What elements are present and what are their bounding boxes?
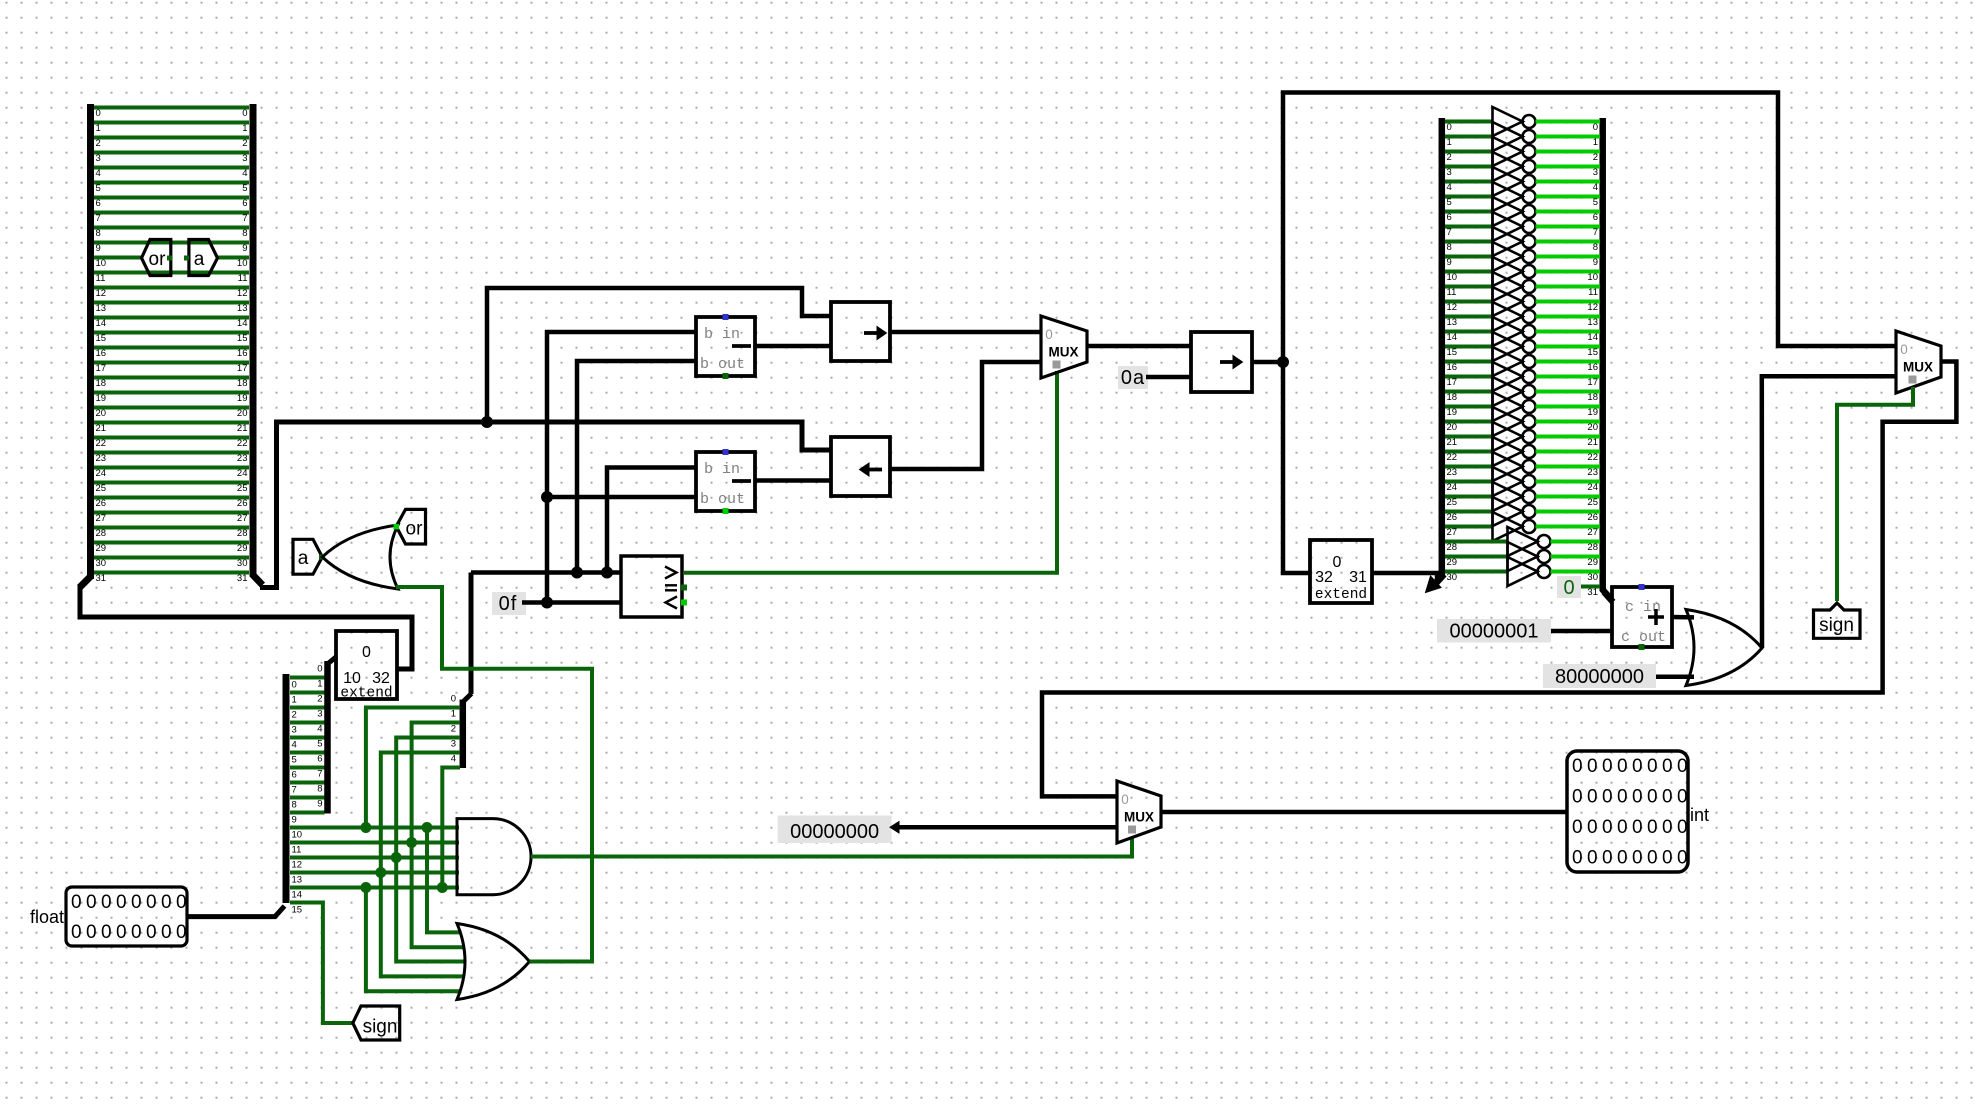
wire float bit 3 to SP4 [290,721,325,725]
svg-text:14: 14 [1447,332,1458,343]
svg-text:20: 20 [1447,422,1458,433]
inverter N2 [1493,137,1523,166]
svg-text:b out: b out [700,356,745,373]
wire SP5 leg0 to bit10 row [366,708,460,828]
svg-text:2: 2 [1447,152,1452,163]
splitter SP3 main 16-bit spine [283,674,290,903]
wire vertical 0f net to b-in and b-out [547,332,696,603]
svg-text:30: 30 [1447,572,1458,583]
junction on 0f wire [541,597,553,609]
wire SP1-SP2 bit 9 [94,241,249,245]
wire SP1-SP2 bit 25 [94,481,249,485]
svg-text:3: 3 [1593,167,1598,178]
label 00000001 constant [1437,619,1551,643]
svg-text:17: 17 [1587,377,1598,388]
wire SP1-SP2 bit 17 [94,361,249,365]
svg-text:20: 20 [1587,422,1598,433]
svg-text:2: 2 [292,710,297,721]
svg-text:15: 15 [237,333,248,344]
wire exponent bit 10 row [290,826,459,830]
wire SP1-SP2 bit 12 [94,286,249,290]
wire float bit 5 to SP4 [290,751,325,755]
svg-text:25: 25 [1587,497,1598,508]
svg-text:3: 3 [96,153,101,164]
svg-text:27: 27 [96,513,107,524]
svg-text:6: 6 [292,770,297,781]
svg-text:or: or [149,249,167,270]
junction b-out branch [541,491,553,503]
svg-text:22: 22 [96,438,107,449]
wire SP1-SP2 bit 16 [94,346,249,350]
wire SP6 bit 10 to inverter [1445,270,1493,274]
tunnel 'or' mid (points left) [396,509,425,544]
splitter SP2 right spine (32-bit fan-in) [250,104,257,576]
wire SP1-SP2 bit 22 [94,436,249,440]
wire inverter N29 out bit 29 [1551,555,1601,559]
wire SP7 bus to adder input a [1604,592,1613,602]
svg-text:5: 5 [1593,197,1598,208]
svg-text:6: 6 [96,198,101,209]
wire inverter N5 out bit 5 [1536,195,1601,199]
svg-text:3: 3 [242,153,247,164]
svg-text:b in: b in [704,461,740,478]
svg-text:1: 1 [96,123,101,134]
wire SP1-SP2 bit 19 [94,391,249,395]
wire float bit 1 to SP4 [290,691,325,695]
svg-text:0 0 0 0 0 0 0 0: 0 0 0 0 0 0 0 0 [1572,787,1687,808]
wire long loop to MUX M3 input 0 [1283,93,1896,363]
wire SP2 bus up to shifter network [260,422,831,588]
wire inverter N15 out bit 15 [1536,345,1601,349]
wire 0f to comparator input b [522,600,621,605]
wire SP1-SP2 bit 10 [94,256,143,260]
svg-text:14: 14 [96,318,107,329]
wire float bit 6 to SP4 [290,766,325,770]
wire SP1-SP2 bit 7 [94,211,249,215]
svg-text:28: 28 [96,528,107,539]
svg-text:29: 29 [237,543,248,554]
svg-text:7: 7 [242,213,247,224]
svg-text:5: 5 [292,755,297,766]
tunnel 'or' on bit 10 (points left) [142,240,171,276]
svg-text:int: int [1690,805,1709,825]
svg-text:11: 11 [96,273,106,284]
svg-text:0: 0 [1333,554,1342,571]
mux M1 [1041,316,1087,378]
wire SP1-SP2 bit 11 [94,271,249,275]
wire SP5 leg4 to bit14 row [442,768,460,888]
wire 00000001 to adder input b [1551,629,1612,634]
svg-text:0 0 0 0 0 0 0 0: 0 0 0 0 0 0 0 0 [1572,817,1687,838]
wire SP1-SP2 bit 2 [94,136,249,140]
svg-text:0: 0 [1593,122,1598,133]
svg-text:24: 24 [1587,482,1598,493]
wire branch to lower b-out [547,495,696,500]
svg-text:3: 3 [317,709,322,720]
register U2 'b in / b out' lower [696,452,755,511]
svg-text:18: 18 [237,378,248,389]
svg-text:9: 9 [242,243,247,254]
svg-text:9: 9 [1593,257,1598,268]
wire SP1-SP2 bit 5 [94,181,249,185]
wire G4 out up to MUX M3 input 1 [1762,376,1896,648]
or gate G3 a = or | nonzero (points left) [322,525,398,589]
svg-text:5: 5 [242,183,247,194]
svg-text:27: 27 [1587,527,1598,538]
subcircuit SH3 right-shifter box [1191,332,1252,392]
wire inverter N6 out bit 6 [1536,210,1601,214]
wire SP1-SP2 bit 18 [94,376,249,380]
wire inverter N24 out bit 24 [1536,480,1601,484]
svg-text:0: 0 [292,680,297,691]
svg-text:10: 10 [96,258,107,269]
svg-text:25: 25 [96,483,107,494]
svg-text:0f: 0f [499,593,518,615]
svg-text:6: 6 [317,754,322,765]
wire AND G1 out to MUX M2 select [531,837,1132,857]
svg-text:11: 11 [292,845,302,856]
svg-text:4: 4 [242,168,247,179]
svg-text:5: 5 [96,183,101,194]
wire SP6 bit 24 to inverter [1445,480,1493,484]
wire SP6 bit 12 to inverter [1445,300,1493,304]
svg-text:9: 9 [96,243,101,254]
svg-text:14: 14 [1587,332,1598,343]
inverter N23 [1493,452,1523,481]
wire SP6 bit 5 to inverter [1445,195,1493,199]
inverter N18 [1493,377,1523,406]
svg-text:0: 0 [1121,792,1129,807]
svg-text:30: 30 [96,558,107,569]
inverter N11 [1493,272,1523,301]
svg-text:13: 13 [1447,317,1458,328]
svg-text:22: 22 [1587,452,1598,463]
svg-text:10: 10 [292,830,303,841]
svg-text:15: 15 [1587,347,1598,358]
svg-text:14: 14 [292,890,303,901]
wire SP6 bit 21 to inverter [1445,435,1493,439]
svg-text:sign: sign [363,1017,398,1038]
svg-text:9: 9 [317,799,322,810]
svg-text:0: 0 [1900,342,1908,357]
svg-text:9: 9 [292,815,297,826]
svg-text:4: 4 [451,754,456,765]
svg-text:16: 16 [1447,362,1458,373]
svg-text:sign: sign [1819,615,1854,636]
splitter SP6 origin arrow [1434,574,1444,585]
svg-text:a: a [298,548,309,569]
svg-text:1: 1 [242,123,247,134]
svg-text:16: 16 [1587,362,1598,373]
inverter N8 [1493,227,1523,256]
wire exponent bit 13 row [290,871,459,875]
inverter N28 [1508,527,1538,556]
svg-text:00000000: 00000000 [790,821,879,843]
wire inverter N1 out bit 1 [1536,135,1601,139]
svg-text:2: 2 [242,138,247,149]
inverter N10 [1493,257,1523,286]
svg-text:8: 8 [292,800,297,811]
wire float bit 0 to SP4 [290,676,325,680]
wire inverter N8 out bit 8 [1536,240,1601,244]
inverter N22 [1493,437,1523,466]
svg-text:0 0 0 0 0 0 0 0: 0 0 0 0 0 0 0 0 [71,892,186,913]
wire SH3 out to splitter bus and MUX M3 [1252,360,1283,365]
inverter N24 [1493,467,1523,496]
inverter N27 [1493,512,1523,541]
wire SP1-SP2 bit 14 [94,316,249,320]
inverter N15 [1493,332,1523,361]
svg-text:23: 23 [1447,467,1458,478]
svg-text:1: 1 [317,679,322,690]
svg-text:21: 21 [96,423,107,434]
svg-text:10: 10 [1587,272,1598,283]
svg-text:0 0 0 0 0 0 0 0: 0 0 0 0 0 0 0 0 [71,922,186,943]
wire SP1-SP2 bit 21 [94,421,249,425]
inverter N1 [1493,122,1523,151]
wire SP1-SP2 bit 28 [94,526,249,530]
svg-text:24: 24 [1447,482,1458,493]
svg-text:7: 7 [292,785,297,796]
wire exponent bit 12 row [290,856,459,860]
svg-text:20: 20 [96,408,107,419]
svg-text:5: 5 [1447,197,1452,208]
svg-text:6: 6 [1593,212,1598,223]
svg-text:25: 25 [1447,497,1458,508]
svg-text:2: 2 [1593,152,1598,163]
and gate G1 (exponent all ones) [457,819,531,895]
svg-text:16: 16 [96,348,107,359]
inverter N21 [1493,422,1523,451]
wire 00000000 to MUX M2 input 1 [898,825,1117,830]
svg-text:19: 19 [1447,407,1458,418]
subcircuit SH2 left-shifter box [831,437,890,496]
wire exponent bit 14 row [290,886,459,890]
svg-text:32: 32 [372,670,390,687]
svg-text:0: 0 [317,664,322,675]
svg-text:12: 12 [237,288,248,299]
wire SP6 bit 28 to inverter [1445,540,1508,544]
svg-text:31: 31 [96,573,107,584]
wire inverter N12 out bit 12 [1536,300,1601,304]
svg-text:extend: extend [1315,587,1367,603]
wire lower b-in down to comparator input a [607,468,696,573]
svg-text:29: 29 [1587,557,1598,568]
label 0 constant (bit 31) [1557,576,1581,598]
wire inverter N26 out bit 26 [1536,510,1601,514]
inverter N26 [1493,497,1523,526]
wire SP6 bit 17 to inverter [1445,375,1493,379]
wire SP6 bit 19 to inverter [1445,405,1493,409]
svg-text:10: 10 [343,670,361,687]
svg-text:13: 13 [1587,317,1598,328]
wire SP1-SP2 bit 24 [94,466,249,470]
svg-text:00000001: 00000001 [1450,621,1539,643]
wire SP1 bus to extend output [80,585,412,669]
splitter SP7 right spine (32-bit fan-in) [1599,118,1606,591]
svg-text:3: 3 [451,739,456,750]
svg-text:0a: 0a [1121,367,1145,389]
svg-text:13: 13 [292,875,303,886]
wire inverter N9 out bit 9 [1536,255,1601,259]
svg-text:31: 31 [1587,587,1598,598]
wire SP1-SP2 bit 15 [94,331,249,335]
svg-text:MUX: MUX [1049,345,1079,360]
wire SP6 bit 16 to inverter [1445,360,1493,364]
svg-text:20: 20 [237,408,248,419]
svg-text:8: 8 [1447,242,1452,253]
svg-text:float: float [30,907,64,927]
wire SP1-SP2 bit 3 [94,151,249,155]
wire SP1-SP2 bit 31 [94,571,249,575]
inverter N7 [1493,212,1523,241]
svg-text:11: 11 [238,273,248,284]
svg-text:1: 1 [1593,137,1598,148]
svg-text:12: 12 [1447,302,1458,313]
svg-text:1: 1 [292,695,297,706]
wire 0 to SP7 bit 31 [1581,585,1600,589]
pin 'float' input box [66,887,187,946]
svg-text:8: 8 [317,784,322,795]
wire M3 select from sign tunnel [1837,387,1913,601]
wire SP6 bit 22 to inverter [1445,450,1493,454]
wire bit14 down to OR G2 in5 [366,888,462,992]
wire SP6 bit 13 to inverter [1445,315,1493,319]
svg-text:4: 4 [1447,182,1452,193]
svg-text:13: 13 [96,303,107,314]
inverter N3 [1493,152,1523,181]
svg-text:26: 26 [1587,512,1598,523]
svg-text:MUX: MUX [1903,360,1933,375]
svg-text:31: 31 [1349,569,1367,586]
svg-text:26: 26 [1447,512,1458,523]
inverter N30 [1508,557,1538,586]
svg-text:7: 7 [96,213,101,224]
svg-text:29: 29 [96,543,107,554]
svg-text:23: 23 [1587,467,1598,478]
wire inverter N11 out bit 11 [1536,285,1601,289]
svg-text:27: 27 [1447,527,1458,538]
wire 80000000 to OR G4 input 2 [1656,674,1694,679]
subcircuit SH1 right-shifter box [831,302,890,361]
wire G2 out snake to G3 input [396,587,592,962]
splitter SP6 left spine (31-bit fanout) [1439,118,1446,578]
svg-text:15: 15 [292,905,303,916]
wire bus down to extend32-31 [1283,362,1310,573]
svg-text:2: 2 [317,694,322,705]
wire M3 output long loop to MUX M2 input 0 [1042,362,1956,797]
svg-text:4: 4 [292,740,297,751]
subcircuit EXT2 extend 32->31 box [1310,540,1372,603]
wire sign bit 15 to tunnel [290,903,353,1024]
tunnel 'sign' top right (points up) [1814,603,1861,638]
svg-text:b in: b in [704,326,740,343]
svg-text:8: 8 [242,228,247,239]
wire SP1-SP2 bit 29 [94,541,249,545]
wire SP6 bit 30 to inverter [1445,570,1508,574]
subcircuit EXT1 extend 10->32 box [336,631,397,699]
svg-text:12: 12 [292,860,303,871]
inverter N13 [1493,302,1523,331]
svg-text:15: 15 [1447,347,1458,358]
wire inverter N17 out bit 17 [1536,375,1601,379]
wire adder out to OR G4 [1672,615,1694,620]
or gate G2 (exponent nonzero) [457,924,530,1000]
wire SP6 bit 27 to inverter [1445,525,1493,529]
tunnel 'sign' bottom (points left) [353,1006,400,1040]
inverter N25 [1493,482,1523,511]
wire SP1-SP2 bit 0 [94,106,249,110]
svg-text:MUX: MUX [1124,810,1154,825]
label 0a constant [1118,366,1148,389]
wire inverter N22 out bit 22 [1536,450,1601,454]
wire SP5 leg3 through bit13 to OR G2 in4 [381,753,465,977]
wire M1 out to shifter SH3 [1087,344,1191,349]
wire bit10 down to OR G2 in1 [427,828,462,933]
svg-text:16: 16 [237,348,248,359]
svg-text:1: 1 [1447,137,1452,148]
inverter N14 [1493,317,1523,346]
svg-text:12: 12 [1587,302,1598,313]
wire SP1-SP2 bit 23 [94,451,249,455]
inverter N12 [1493,287,1523,316]
svg-text:17: 17 [237,363,248,374]
svg-text:28: 28 [237,528,248,539]
wire inverter N4 out bit 4 [1536,180,1601,184]
wire inverter N7 out bit 7 [1536,225,1601,229]
svg-text:6: 6 [1447,212,1452,223]
wire inverter N14 out bit 14 [1536,330,1601,334]
junction on 32-bit bus [481,416,493,428]
wire exponent bit 11 row [290,841,459,845]
wire SH2 out to MUX M1 input 1 [890,362,1041,469]
wire inverter N23 out bit 23 [1536,465,1601,469]
wire SP6 bit 29 to inverter [1445,555,1508,559]
wire SP6 bit 25 to inverter [1445,495,1493,499]
svg-text:17: 17 [1447,377,1458,388]
svg-text:17: 17 [96,363,107,374]
wire inverter N27 out bit 27 [1536,525,1601,529]
svg-text:21: 21 [1587,437,1598,448]
wire SP6 bit 9 to inverter [1445,255,1493,259]
wire SP6 bit 23 to inverter [1445,465,1493,469]
wire SP6 bit 11 to inverter [1445,285,1493,289]
wire SP6 bit 15 to inverter [1445,345,1493,349]
svg-text:29: 29 [1447,557,1458,568]
wire SP1-SP2 bit 26 [94,496,249,500]
wire float bit 2 to SP4 [290,706,325,710]
junction comparator input a [571,567,583,579]
inverter N20 [1493,407,1523,436]
pin 'int' output box [1567,751,1688,872]
svg-text:19: 19 [237,393,248,404]
adder A1 box [1612,587,1672,647]
svg-text:25: 25 [237,483,248,494]
svg-text:26: 26 [237,498,248,509]
inverter N4 [1493,167,1523,196]
wire SP1-SP2 bit 1 [94,121,249,125]
svg-text:24: 24 [96,468,107,479]
svg-text:0 0 0 0 0 0 0 0: 0 0 0 0 0 0 0 0 [1572,756,1687,777]
wire SP6 bit 20 to inverter [1445,420,1493,424]
wire SP1-SP2 bit 6 [94,196,249,200]
splitter SP1 left spine (32-bit fanout) [87,104,94,579]
svg-text:27: 27 [237,513,248,524]
wire SP6 bit 18 to inverter [1445,390,1493,394]
inverter N5 [1493,182,1523,211]
svg-text:b out: b out [700,491,745,508]
wire top b-out down to comparator input a [577,361,696,573]
